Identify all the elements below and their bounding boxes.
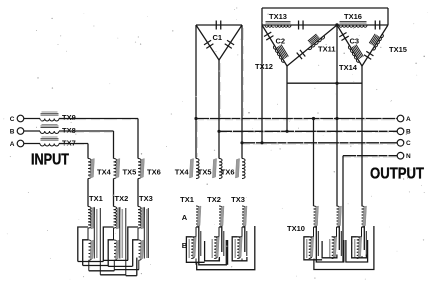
svg-text:TX4: TX4 [175,168,190,177]
svg-text:TX12: TX12 [255,62,273,71]
svg-text:TX6: TX6 [221,168,235,177]
svg-text:TX9: TX9 [62,113,76,122]
svg-text:TX5: TX5 [198,168,212,177]
svg-text:C: C [406,140,411,147]
svg-text:C1: C1 [213,33,223,42]
svg-text:TX6: TX6 [147,168,161,177]
svg-text:TX4: TX4 [97,168,112,177]
svg-text:TX11: TX11 [318,45,336,54]
svg-text:TX2: TX2 [115,194,129,203]
svg-text:TX1: TX1 [180,195,194,204]
svg-text:A: A [406,116,411,123]
svg-text:C2: C2 [276,37,286,46]
svg-text:TX16: TX16 [344,12,362,21]
svg-text:TX15: TX15 [389,45,407,54]
svg-text:A: A [10,141,15,148]
svg-text:B: B [10,128,15,135]
svg-text:INPUT: INPUT [31,152,69,169]
svg-text:TX3: TX3 [231,195,245,204]
svg-text:TX8: TX8 [62,126,76,135]
svg-text:A: A [182,213,188,222]
svg-text:C: C [10,116,15,123]
svg-text:C3: C3 [350,37,360,46]
svg-text:TX14: TX14 [339,63,358,72]
svg-text:TX5: TX5 [123,168,137,177]
svg-text:TX3: TX3 [139,194,153,203]
svg-text:TX13: TX13 [269,12,287,21]
svg-text:TX2: TX2 [207,195,221,204]
svg-text:OUTPUT: OUTPUT [370,166,424,183]
svg-text:TX7: TX7 [62,138,76,147]
svg-text:TX10: TX10 [287,224,305,233]
svg-text:N: N [406,153,411,160]
svg-text:TX1: TX1 [89,194,103,203]
